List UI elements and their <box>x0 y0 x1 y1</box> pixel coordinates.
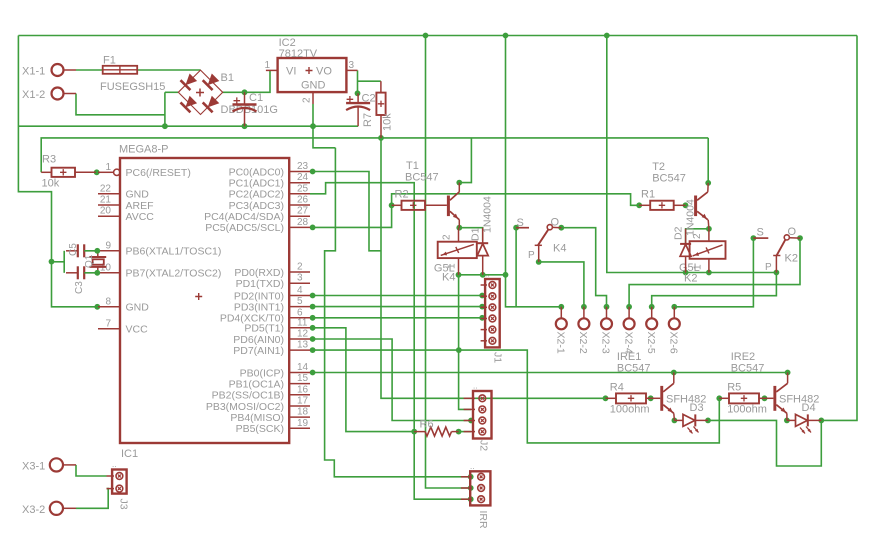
wire switch K4 P contact to X2-2 <box>539 262 584 307</box>
wire bridge B1 out to IC2 VI <box>223 70 271 92</box>
junction X2-3 <box>604 304 610 310</box>
capacitor C3 (crystal load, bottom) <box>66 266 98 294</box>
wire pin 6 PD4 to J1 pin 4 <box>313 317 483 319</box>
pin 3 PD1(TXD) of IC1 <box>236 273 310 290</box>
junction T1 collector <box>456 180 462 186</box>
junction X2-5 <box>649 304 655 310</box>
junction D4 cathode <box>818 418 824 424</box>
junction pin12 <box>310 336 316 342</box>
diode D3 SFH482 (IR LED) <box>674 402 708 434</box>
junction IRE1 emitter / D3 anode <box>672 418 678 424</box>
wire IC2 VO to R7 and C2 <box>358 70 381 93</box>
wire pin 12 PD6 to J2 pin 3 <box>313 339 471 421</box>
svg-text:D2: D2 <box>673 226 685 240</box>
pin 5 PD3(INT1) of IC1 <box>234 296 310 313</box>
wire pin 13 PD7 to J2 pin2 branch and R5 <box>313 350 720 443</box>
capacitor C1 (polarized) <box>233 92 264 126</box>
junction D1 cathode low <box>480 272 486 278</box>
svg-text:..: .. <box>485 270 489 279</box>
svg-text:AVCC: AVCC <box>126 211 155 223</box>
svg-text:12: 12 <box>297 329 309 340</box>
wire pin 14 PB0 to IRE1/IRE2 collectors <box>313 372 788 374</box>
wire R7 bottom to J2 pin1 and R4 <box>381 138 605 398</box>
wire T1 emitter node to D1 <box>459 228 482 241</box>
crystal Q1 <box>84 251 106 273</box>
connector pad X2-1 <box>555 307 567 354</box>
svg-text:K2: K2 <box>785 253 798 265</box>
pin 20 AVCC of IC1 <box>98 206 154 223</box>
wire T2 collector riser <box>707 138 709 183</box>
wire top rail down to IRR pin 2 <box>426 36 472 489</box>
svg-text:BC547: BC547 <box>731 363 765 375</box>
pin 22 GND of IC1 <box>98 183 149 200</box>
svg-text:F1: F1 <box>103 55 116 67</box>
svg-text:27: 27 <box>297 206 309 217</box>
svg-text:14: 14 <box>297 362 309 373</box>
junction J1 pin2 <box>479 293 485 299</box>
junction top rail / K4 branch <box>503 33 509 39</box>
connector pad X2-2 <box>577 307 589 354</box>
svg-text:C5: C5 <box>68 243 79 256</box>
pin 12 PD6(AIN0) of IC1 <box>233 329 310 346</box>
junction IRR pin2 <box>468 485 474 491</box>
diode D4 SFH482 (IR LED) <box>787 402 821 434</box>
connector pad X2-5 <box>645 307 657 354</box>
svg-text:8: 8 <box>105 296 111 307</box>
pin 23 PC0(ADC0) of IC1 <box>229 161 310 178</box>
wire top rail down to K2 coil low rail <box>607 36 777 273</box>
svg-text:..: .. <box>473 382 477 391</box>
svg-text:100ohm: 100ohm <box>727 404 767 416</box>
svg-text:20: 20 <box>100 206 112 217</box>
svg-text:16: 16 <box>297 384 309 395</box>
voltage regulator IC2 7812TV <box>278 37 347 92</box>
junction pin11 <box>310 325 316 331</box>
svg-text:R7: R7 <box>362 113 374 127</box>
transistor IRE1 BC547 (NPN) <box>617 351 706 420</box>
svg-text:T2: T2 <box>652 161 665 173</box>
svg-text:2: 2 <box>442 234 453 240</box>
svg-text:Q1: Q1 <box>84 254 95 268</box>
transistor T2 BC547 (NPN) <box>652 161 709 229</box>
svg-text:X2-1: X2-1 <box>555 332 567 354</box>
junction pin5 <box>310 304 316 310</box>
svg-text:2: 2 <box>302 97 313 103</box>
pin 25 PC2(ADC2) of IC1 <box>229 183 310 200</box>
junction J2 pin3 <box>468 418 474 424</box>
svg-text:J3: J3 <box>118 499 130 510</box>
pin 19 PB5(SCK) of IC1 <box>236 418 310 435</box>
svg-text:VO: VO <box>316 66 332 78</box>
junction R7 bottom on +12V rail <box>378 135 384 141</box>
junction switch K2 P <box>774 270 780 276</box>
svg-text:2: 2 <box>297 262 303 273</box>
pin 11 PD5(T1) of IC1 <box>244 317 310 334</box>
junction IRE2 collector <box>785 370 791 376</box>
wire pin 28 PC5 to R2 and R1 bases <box>313 194 640 228</box>
svg-text:PC3(ADC3): PC3(ADC3) <box>229 200 284 212</box>
svg-text:R2: R2 <box>395 189 409 201</box>
wire top supply rail <box>18 35 857 37</box>
svg-text:9: 9 <box>105 240 111 251</box>
pin 1 of IC2 <box>264 60 277 71</box>
wire IC2 GND pin2 down to node <box>313 104 335 148</box>
svg-text:S: S <box>517 217 524 229</box>
wire X1-1 to fuse F1 <box>76 69 103 71</box>
svg-text:P: P <box>528 250 535 261</box>
capacitor C5 (crystal load, top) <box>66 243 98 258</box>
svg-text:10k: 10k <box>42 178 60 190</box>
junction R6 output <box>456 429 462 435</box>
resistor R7 10k (vertical) <box>362 81 394 138</box>
pin 2 PD0(RXD) of IC1 <box>234 262 310 279</box>
pin 1 PC6(/RESET) of IC1 <box>98 162 191 179</box>
junction pin13 rail / J2 pin2 feed <box>456 347 462 353</box>
connector pad X1-2 <box>22 88 76 102</box>
junction GND rail / IC2 pin2 <box>310 123 316 129</box>
wire pin 23 PC0 down to J2/R4 net <box>313 172 381 251</box>
svg-text:K4: K4 <box>442 272 455 284</box>
junction X2-1 <box>558 304 564 310</box>
wire X3-1 to J3 pin 1 <box>76 465 107 476</box>
connector pad X3-2 <box>22 502 76 516</box>
svg-text:1N4004: 1N4004 <box>685 199 697 236</box>
wire pin 11 PD5 down to R6 <box>313 328 415 432</box>
svg-text:13: 13 <box>297 340 309 351</box>
svg-text:PB7(XTAL2/TOSC2): PB7(XTAL2/TOSC2) <box>126 268 222 280</box>
svg-text:X3-1: X3-1 <box>22 461 45 473</box>
junction switch K2 O <box>797 235 803 241</box>
pin 2 of IC2 <box>302 92 314 104</box>
svg-text:23: 23 <box>297 161 309 172</box>
junction R6 input <box>411 429 417 435</box>
switch K4 (SPDT) <box>516 217 566 262</box>
relay K4 G5L coil <box>434 228 477 284</box>
junction VO / C2 top <box>355 90 361 96</box>
fuse F1 FUSEGSH15 <box>100 55 165 94</box>
svg-text:PD1(TXD): PD1(TXD) <box>236 278 284 290</box>
pin 3 of IC2 <box>346 60 357 71</box>
svg-text:PB1(OC1A): PB1(OC1A) <box>229 378 284 390</box>
wire fuse F1 to bridge B1 <box>137 69 200 71</box>
pin 9 PB6(XTAL1/TOSC1) of IC1 <box>98 240 221 257</box>
junction GND / pin8 <box>94 304 100 310</box>
pin 4 PD2(INT0) of IC1 <box>234 285 310 302</box>
connector pad X2-6 <box>668 307 680 354</box>
svg-text:25: 25 <box>297 183 309 194</box>
junction D2 low <box>683 270 689 276</box>
svg-text:K2: K2 <box>684 273 697 285</box>
junction X2-6 <box>671 304 677 310</box>
connector pad X2-4 <box>622 307 634 354</box>
svg-text:7: 7 <box>105 318 111 329</box>
svg-text:22: 22 <box>100 183 112 194</box>
svg-text:PD0(RXD): PD0(RXD) <box>234 267 284 279</box>
junction top rail / K2 branch <box>604 33 610 39</box>
svg-text:BC547: BC547 <box>652 173 686 185</box>
svg-text:T1: T1 <box>406 160 419 172</box>
junction J1 pin4 <box>479 315 485 321</box>
wire GND bus down to IRR pin 1 <box>325 148 471 477</box>
svg-text:PB4(MISO): PB4(MISO) <box>230 412 284 424</box>
svg-text:MEGA8-P: MEGA8-P <box>119 144 169 156</box>
wire X1-2 to bridge B1 left <box>76 92 178 126</box>
svg-text:B1: B1 <box>221 72 234 84</box>
junction D3 cathode <box>705 418 711 424</box>
junction R5 to IRE2 base <box>762 395 768 401</box>
svg-text:X3-2: X3-2 <box>22 504 45 516</box>
pin 7 VCC of IC1 <box>98 318 148 335</box>
junction pin23 <box>310 169 316 175</box>
connector J2 (4-pin header) <box>464 382 492 452</box>
junction pin28 <box>310 225 316 231</box>
junction switch K2 S <box>751 235 757 241</box>
pin 8 GND of IC1 <box>98 296 149 313</box>
wire top rail down to X2-1 via K4 area <box>506 36 562 307</box>
svg-text:PC4(ADC4/SDA): PC4(ADC4/SDA) <box>204 211 284 223</box>
resistor R2 <box>392 189 447 210</box>
relay K2 G5L coil <box>679 229 726 285</box>
wire pin 25 PC2 over to R6 node and IRR pin3 <box>310 183 471 500</box>
svg-text:IRR: IRR <box>477 511 489 530</box>
junction GND rail / X1-2 branch <box>162 123 168 129</box>
svg-text:BC547: BC547 <box>617 363 651 375</box>
svg-text:PD7(AIN1): PD7(AIN1) <box>233 345 284 357</box>
junction R2 input <box>389 202 395 208</box>
svg-text:D3: D3 <box>690 402 704 414</box>
svg-text:C3: C3 <box>74 281 85 294</box>
svg-text:PB5(SCK): PB5(SCK) <box>236 423 284 435</box>
svg-text:R4: R4 <box>610 382 624 394</box>
svg-text:1: 1 <box>447 263 458 269</box>
svg-text:X2-6: X2-6 <box>668 332 680 354</box>
svg-text:C1: C1 <box>249 92 263 104</box>
connector pad X3-1 <box>22 458 76 472</box>
svg-text:10k: 10k <box>382 113 394 131</box>
wire relay K4 coil low / D1 to vertical <box>459 274 506 276</box>
transistor IRE2 BC547 (NPN) <box>731 351 820 420</box>
svg-text:PD5(T1): PD5(T1) <box>244 323 284 335</box>
svg-text:FUSEGSH15: FUSEGSH15 <box>100 81 165 93</box>
connector J1 (6-pin header) <box>481 270 504 364</box>
svg-text:R3: R3 <box>42 154 56 166</box>
svg-text:D4: D4 <box>802 402 816 414</box>
pin 18 PB4(MISO) of IC1 <box>230 407 310 424</box>
svg-text:VI: VI <box>286 66 296 78</box>
svg-text:21: 21 <box>100 195 112 206</box>
svg-text:4: 4 <box>297 285 303 296</box>
pin 21 AREF of IC1 <box>98 195 154 212</box>
junction GND / crystal caps <box>49 259 55 265</box>
svg-text:..: .. <box>470 462 474 471</box>
svg-text:7812TV: 7812TV <box>279 48 318 60</box>
junction pin6 <box>310 315 316 321</box>
wire crystal caps to GND bus <box>52 251 65 273</box>
svg-text:PB6(XTAL1/TOSC1): PB6(XTAL1/TOSC1) <box>126 246 222 258</box>
svg-text:S: S <box>757 227 764 239</box>
wire pin9 to crystal caps <box>84 248 100 276</box>
capacitor C2 (polarized) <box>346 93 375 127</box>
svg-text:28: 28 <box>297 217 309 228</box>
junction IRE1 collector <box>671 370 677 376</box>
svg-text:J1: J1 <box>492 352 504 363</box>
svg-text:100ohm: 100ohm <box>610 404 650 416</box>
svg-text:17: 17 <box>297 396 309 407</box>
wire left frame / GND to pin8 <box>18 36 98 307</box>
connector J3 (2-pin header) <box>107 460 130 510</box>
svg-text:3: 3 <box>349 60 355 71</box>
svg-text:P: P <box>765 262 772 273</box>
wire +12V rail y=138 R3 to T2 collector <box>41 138 708 172</box>
resistor R4 100ohm <box>606 382 651 416</box>
switch K2 (SPDT) <box>753 226 800 273</box>
wire R6 to J2 pin 4 <box>459 431 471 433</box>
wire switch K2 O contact to X2-4 <box>629 238 800 307</box>
svg-text:R5: R5 <box>727 382 741 394</box>
diode D1 1N4004 <box>470 196 494 275</box>
svg-text:GND: GND <box>301 80 326 92</box>
resistor R5 100ohm <box>719 382 767 416</box>
junction IRR pin3 <box>468 496 474 502</box>
connector IRR (3-pin header) <box>461 462 491 529</box>
junction R1 to T2 base <box>683 202 689 208</box>
svg-text:1: 1 <box>693 264 704 270</box>
pin 24 PC1(ADC1) of IC1 <box>229 172 310 189</box>
svg-text:15: 15 <box>297 373 309 384</box>
junction B1 out / C1 top <box>242 89 248 95</box>
wire pin 5 PD3 to J1 pin 3 <box>313 306 483 308</box>
pin 10 PB7(XTAL2/TOSC2) of IC1 <box>98 262 221 279</box>
junction switch K4 P <box>536 259 542 265</box>
svg-text:19: 19 <box>297 418 309 429</box>
resistor R3 10k <box>41 154 96 190</box>
svg-text:O: O <box>551 217 560 229</box>
junction J1 pin3 <box>479 304 485 310</box>
junction R4 input <box>603 395 609 401</box>
junction switch K4 S <box>513 225 519 231</box>
junction X2-2 <box>581 304 587 310</box>
pin 27 PC4(ADC4/SDA) of IC1 <box>204 206 310 223</box>
wire switch K4 O contact to X2-3 <box>561 228 606 307</box>
svg-text:X2-5: X2-5 <box>645 332 657 354</box>
wire GND rail y=126 <box>18 125 358 127</box>
junction T2 emitter <box>706 226 712 232</box>
wire T2 emitter node to D2 <box>686 229 709 244</box>
svg-text:PB2(SS/OC1B): PB2(SS/OC1B) <box>212 390 284 402</box>
transistor T1 BC547 (NPN) <box>405 160 459 228</box>
svg-text:IRE2: IRE2 <box>731 351 755 363</box>
svg-text:PC2(ADC2): PC2(ADC2) <box>229 189 284 201</box>
svg-text:VCC: VCC <box>126 324 149 336</box>
pin 26 PC3(ADC3) of IC1 <box>229 195 310 212</box>
svg-text:X1-1: X1-1 <box>22 66 45 78</box>
svg-text:O: O <box>788 226 797 238</box>
svg-text:..: .. <box>112 460 116 469</box>
svg-text:C2: C2 <box>362 93 376 105</box>
svg-text:PC0(ADC0): PC0(ADC0) <box>229 166 284 178</box>
junction switch K4 O <box>558 225 564 231</box>
svg-text:IRE1: IRE1 <box>617 351 641 363</box>
junction R3 / pin1 <box>94 169 100 175</box>
svg-text:BC547: BC547 <box>405 172 439 184</box>
svg-text:26: 26 <box>297 195 309 206</box>
pin 28 PC5(ADC5/SCL) of IC1 <box>205 217 310 234</box>
svg-text:1: 1 <box>105 162 111 173</box>
svg-text:GND: GND <box>126 189 150 201</box>
connector pad X2-3 <box>600 307 612 354</box>
svg-text:X1-2: X1-2 <box>22 89 45 101</box>
svg-text:PC5(ADC5/SCL): PC5(ADC5/SCL) <box>205 222 284 234</box>
svg-text:GND: GND <box>126 302 150 314</box>
svg-text:J2: J2 <box>478 440 490 451</box>
pin 14 PB0(ICP) of IC1 <box>240 362 310 379</box>
svg-text:R6: R6 <box>420 419 434 431</box>
svg-text:24: 24 <box>297 172 309 183</box>
svg-text:DBDB101G: DBDB101G <box>221 104 278 116</box>
junction R1 input <box>636 202 642 208</box>
resistor R1 <box>639 189 685 210</box>
pin 15 PB1(OC1A) of IC1 <box>229 373 310 390</box>
svg-text:IC1: IC1 <box>121 448 138 460</box>
svg-text:18: 18 <box>297 407 309 418</box>
svg-text:3: 3 <box>297 273 303 284</box>
junction relay K4 pin1 <box>456 272 462 278</box>
svg-text:AREF: AREF <box>126 200 154 212</box>
junction pin14 <box>310 370 316 376</box>
wire D3 cathode loop to D4 cathode <box>708 420 821 466</box>
wire right frame down to D4 <box>823 36 857 421</box>
junction IRE2 emitter / D4 anode <box>784 418 790 424</box>
connector pad X1-1 <box>22 64 76 78</box>
junction K4 coil net <box>503 272 509 278</box>
svg-text:1: 1 <box>264 60 270 71</box>
junction X2-4 <box>626 304 632 310</box>
junction IRR pin1 <box>468 474 474 480</box>
wire switch K2 P contact to X2-5 <box>652 273 777 307</box>
wire switch K2 S contact down to X2-6 <box>674 238 753 307</box>
pin 13 PD7(AIN1) of IC1 <box>233 340 310 357</box>
wire relay K4 pin1 down to J2 pin 2 <box>459 275 471 410</box>
diode D2 1N4004 <box>673 199 697 272</box>
svg-text:X2-3: X2-3 <box>600 332 612 354</box>
wire T1 collector to +12V rail <box>459 138 471 183</box>
microcontroller IC1 MEGA8-P <box>119 144 289 461</box>
junction T2 collector <box>705 180 711 186</box>
junction GND rail / C1 <box>242 123 248 129</box>
junction top rail / IRR2 feed <box>423 33 429 39</box>
resistor R6 (zigzag) <box>414 419 458 437</box>
junction pin4 <box>310 293 316 299</box>
wire X3-2 to J3 pin 2 <box>76 489 108 509</box>
svg-text:D1: D1 <box>470 227 482 241</box>
svg-text:11: 11 <box>297 317 308 328</box>
pin 17 PB3(MOSI/OC2) of IC1 <box>206 396 310 413</box>
bridge rectifier B1 DBDB101G <box>178 70 278 116</box>
wire pin 4 PD2 to J1 pin 2 <box>313 295 483 297</box>
junction T1 emitter <box>456 225 462 231</box>
svg-text:R1: R1 <box>641 189 655 201</box>
svg-text:PC6(/RESET): PC6(/RESET) <box>126 167 191 179</box>
svg-text:5: 5 <box>297 296 303 307</box>
junction R5 input <box>716 395 722 401</box>
pin 6 PD4(XCK/T0) of IC1 <box>220 307 310 324</box>
junction pin13 <box>310 347 316 353</box>
svg-text:1N4004: 1N4004 <box>482 196 494 233</box>
svg-text:X2-2: X2-2 <box>577 332 589 354</box>
svg-text:PD3(INT1): PD3(INT1) <box>234 301 284 313</box>
junction R4 to IRE1 base <box>648 395 654 401</box>
junction relay K2 pin1 <box>706 270 712 276</box>
